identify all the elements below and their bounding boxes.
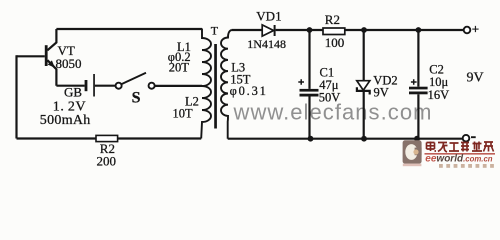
svg-text:20T: 20T [169,60,190,74]
wire secondary top rail to diode [232,29,263,31]
svg-text:+: + [472,21,479,36]
wire emitter to battery [56,85,84,87]
transistor VT base bar [45,45,48,66]
inductor L1 winding [202,29,211,87]
svg-text:9V: 9V [467,71,484,86]
transformer core [214,44,217,129]
svg-text:8050: 8050 [56,56,82,71]
svg-text:1N4148: 1N4148 [247,37,286,51]
battery GB long plate [93,74,95,97]
switch S lever [121,73,146,84]
svg-text:16V: 16V [428,88,450,102]
node C1 top [307,27,313,33]
capacitor C1 [300,89,319,92]
svg-text:500mAh: 500mAh [40,113,91,128]
resistor R2 (100) [323,28,345,35]
wire base lead [17,55,45,57]
svg-text:T: T [211,23,219,37]
wire bottom rail primary right [118,137,202,139]
logo red underline [425,153,496,154]
battery GB short plate [85,80,88,91]
diode VD1 [262,25,273,36]
svg-text:eeworld.com.cn: eeworld.com.cn [425,153,492,164]
wire C2 top lead [417,30,419,87]
terminal + output [464,27,471,34]
inductor L2 winding [201,86,211,139]
wire C1 bottom lead [308,97,310,139]
switch S pole [116,83,122,89]
svg-text:9V: 9V [374,85,389,99]
svg-text:S: S [132,89,141,106]
wire VD2 top lead [363,30,365,81]
transistor VT emitter arrow [48,60,55,67]
svg-text:47μ: 47μ [319,78,339,92]
wire R2 to output [345,29,464,31]
svg-text:100: 100 [325,35,345,50]
logo tagline [439,164,494,168]
wire VD2 bottom lead [363,91,365,139]
wire bottom rail secondary [228,138,463,140]
svg-text:200: 200 [97,154,117,169]
node VD2 top [361,27,367,33]
label C2 plus polarity [411,79,417,85]
wire diode to R2 [276,29,323,31]
wire top rail primary [56,28,202,30]
node C2 bottom [414,136,420,142]
svg-text:50V: 50V [319,91,341,105]
wire C1 top lead [308,30,310,89]
svg-text:R2: R2 [325,12,340,27]
transistor VT emitter [47,60,56,85]
logo title 电子工程世界 [427,142,494,153]
wire bottom rail primary left [17,137,97,139]
logo elecfans icon [403,140,422,163]
wire battery to switch [95,85,116,87]
terminal - output [463,135,470,142]
switch S throw [149,83,155,89]
inductor L3 winding [221,30,232,139]
svg-text:10T: 10T [173,106,194,120]
resistor R2 (200) [96,135,118,141]
wire collector lead [47,29,56,50]
capacitor C2 [409,87,428,90]
node VD2 bottom [361,136,367,142]
svg-text:VD1: VD1 [256,8,281,23]
svg-text:GB: GB [64,85,82,100]
zener diode VD2 [357,81,370,91]
svg-text:φ0.31: φ0.31 [230,84,268,98]
wire C2 bottom lead [417,94,419,138]
wire left vertical [15,55,17,138]
label C1 plus polarity [298,79,304,85]
node C1 bottom [308,136,314,142]
wire switch to center tap [155,85,202,87]
node C2 top [416,27,422,33]
